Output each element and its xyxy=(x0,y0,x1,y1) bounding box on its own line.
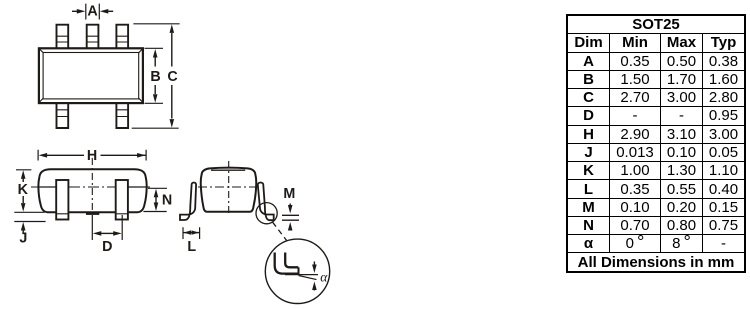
dimension C extension lines xyxy=(132,24,180,128)
dimension N extension lines xyxy=(143,188,167,211)
dimension table xyxy=(566,14,746,273)
svg-text:J: J xyxy=(19,230,27,246)
dimension N arrow xyxy=(154,189,159,211)
top view: pin 1 (top-left) xyxy=(57,25,69,49)
svg-text:N: N xyxy=(162,192,172,208)
detail circle xyxy=(265,239,329,303)
dimension D arrow xyxy=(93,231,122,236)
detail leader dashed line xyxy=(273,222,287,241)
end view: right lead xyxy=(258,182,274,220)
side view: parting line segments xyxy=(39,186,147,188)
svg-text:B: B xyxy=(150,69,160,85)
dimension M lines xyxy=(282,215,299,220)
side view: center pad tab xyxy=(86,212,99,215)
end view: top surface edge xyxy=(211,169,245,171)
side view: lead 1 xyxy=(56,180,68,220)
dimension D extension lines xyxy=(92,215,122,240)
end view: vertical centerline xyxy=(228,161,230,216)
top view: pin 3 (top-right) xyxy=(116,25,128,49)
svg-text:L: L xyxy=(187,239,196,255)
dimension L extension ticks xyxy=(183,227,200,239)
svg-text:M: M xyxy=(283,186,295,202)
detail callout small circle xyxy=(256,203,277,224)
dimension C arrow xyxy=(170,24,175,127)
detail: seating plane line xyxy=(285,274,318,276)
side view: lead 2 xyxy=(116,180,128,220)
top view: pin 2 (top-center) xyxy=(87,25,99,49)
svg-text:K: K xyxy=(18,182,29,198)
dimension K arrow xyxy=(21,170,26,211)
detail: foot angle line xyxy=(299,276,317,280)
svg-text:α: α xyxy=(320,269,328,284)
top view: pin 4 (bottom-left) xyxy=(57,103,69,128)
dimension J extension line xyxy=(14,221,45,223)
dimension H arrow xyxy=(39,153,146,158)
dimension A extension lines xyxy=(86,4,100,20)
detail: lead bend outer line xyxy=(275,253,299,274)
svg-text:C: C xyxy=(167,69,177,85)
detail: lead bend inner line xyxy=(285,253,298,268)
svg-text:D: D xyxy=(102,239,112,255)
side view: horizontal centerline xyxy=(31,186,150,188)
end view: horizontal centerline xyxy=(198,186,263,188)
dimension K extension lines xyxy=(14,170,44,213)
dimension B arrow xyxy=(153,49,158,103)
side view: package body outline xyxy=(38,169,146,212)
end view: left lead xyxy=(180,182,196,220)
svg-text:H: H xyxy=(87,148,97,164)
dimension H extension ticks xyxy=(38,150,146,161)
top view: package body outer outline xyxy=(39,48,143,103)
detail: angle arrows xyxy=(312,262,317,291)
svg-text:A: A xyxy=(87,4,97,20)
end view: package body outline xyxy=(201,168,257,212)
dimension B extension lines xyxy=(145,48,164,103)
dimension M arrows xyxy=(288,204,293,231)
dimension J arrow xyxy=(21,222,26,234)
dimension L arrow xyxy=(184,230,200,234)
detail: lead end edge xyxy=(298,267,300,274)
top view: package body inner edge with corner bevels xyxy=(40,49,143,102)
dimension A arrows xyxy=(72,9,113,14)
side view: vertical centerline xyxy=(91,158,93,214)
top view: pin 5 (bottom-right) xyxy=(116,103,128,128)
